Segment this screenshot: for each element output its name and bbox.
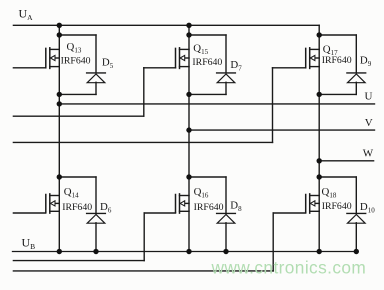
wire D8 branch lower <box>225 223 227 252</box>
transistor Q14 <box>46 194 60 213</box>
wire D9 cathode link <box>319 34 356 36</box>
diode D5 <box>87 73 106 83</box>
wire D10 branch lower <box>355 223 357 252</box>
diode D8 <box>217 213 236 223</box>
transistor Q15 <box>176 48 190 69</box>
diode D10 <box>347 213 366 223</box>
wire column 2 rail (Q15 drain-source to Q16) <box>188 25 190 251</box>
junction node W tap <box>317 158 322 163</box>
wire Q15 gate lead <box>13 68 175 116</box>
wire D5 cathode link <box>59 34 96 36</box>
junction Q16 source on bus <box>186 249 191 254</box>
junction Q13 drain on bus <box>57 23 62 28</box>
svg-text:U: U <box>365 91 373 103</box>
wire D7 branch upper <box>225 35 227 73</box>
junction Q18 drain / D10 <box>317 174 322 179</box>
diode D7 <box>217 73 236 83</box>
svg-text:IRF640: IRF640 <box>322 55 352 66</box>
svg-text:W: W <box>363 148 374 160</box>
wire D5 anode link <box>59 93 96 95</box>
wire D9 branch upper <box>355 35 357 73</box>
wire U_B negative bus <box>13 251 357 253</box>
wire phase W <box>319 160 373 162</box>
svg-text:Q15: Q15 <box>193 42 208 55</box>
wire column 1 rail (Q13 drain-source to Q14) <box>58 25 60 251</box>
svg-text:IRF640: IRF640 <box>194 202 224 213</box>
junction Q17 drain / D9 <box>317 32 322 37</box>
wire Q16 gate lead <box>13 213 175 261</box>
wire D5 branch lower <box>95 82 97 94</box>
junction node V tap <box>186 127 191 132</box>
wire D9 anode link <box>319 93 356 95</box>
junction Q15 drain / D7 <box>186 32 191 37</box>
svg-text:IRF640: IRF640 <box>62 202 92 213</box>
wire phase V <box>189 129 375 131</box>
wire D7 branch lower <box>225 82 227 94</box>
wire Q17 gate lead <box>13 68 305 143</box>
svg-text:Q18: Q18 <box>322 186 337 199</box>
wire D5 branch upper <box>95 35 97 73</box>
junction Q14 source on bus <box>57 249 62 254</box>
junction Q18 source on bus <box>317 249 322 254</box>
wire D7 cathode link <box>189 34 226 36</box>
svg-text:UA: UA <box>19 7 34 22</box>
junction Q16 drain / D8 <box>186 174 191 179</box>
wire D8 branch upper <box>225 177 227 213</box>
svg-text:Q14: Q14 <box>64 186 79 199</box>
wire D6 cathode link <box>59 176 96 178</box>
wire U_A positive bus <box>13 24 319 26</box>
svg-text:D8: D8 <box>230 200 242 213</box>
transistor Q18 <box>306 194 320 213</box>
wire D6 branch upper <box>95 177 97 213</box>
junction Q13 drain / D5 <box>57 32 62 37</box>
wire D8 cathode link <box>189 176 226 178</box>
svg-text:D5: D5 <box>102 57 114 70</box>
svg-text:Q16: Q16 <box>194 186 209 199</box>
junction node U tap <box>57 101 62 106</box>
junction Q17 source / D9 <box>317 92 322 97</box>
junction D10 anode on bus <box>354 249 359 254</box>
junction Q15 drain on bus <box>186 23 191 28</box>
junction Q15 source / D7 <box>186 92 191 97</box>
svg-text:D9: D9 <box>360 55 372 68</box>
wire D7 anode link <box>189 93 226 95</box>
junction Q14 drain / D6 <box>57 174 62 179</box>
transistor Q13 <box>46 48 60 69</box>
wire D10 cathode link <box>319 176 356 178</box>
wire Q18 gate lead <box>13 213 305 271</box>
wire Q14 gate lead <box>13 212 45 214</box>
junction D6 anode on bus <box>93 249 98 254</box>
svg-text:D10: D10 <box>360 201 375 214</box>
svg-text:Q13: Q13 <box>67 41 82 54</box>
transistor Q16 <box>176 194 190 213</box>
svg-text:IRF640: IRF640 <box>61 55 91 66</box>
svg-text:V: V <box>365 117 373 129</box>
svg-text:IRF640: IRF640 <box>322 201 352 212</box>
svg-text:UB: UB <box>22 236 36 251</box>
svg-text:www.cntronics.com: www.cntronics.com <box>211 257 367 277</box>
wire D10 branch upper <box>355 177 357 213</box>
transistor Q17 <box>306 48 320 69</box>
wire phase U <box>59 103 374 105</box>
wire column 3 rail (Q17 drain-source to Q18) <box>318 25 320 251</box>
wire D9 branch lower <box>355 82 357 94</box>
svg-text:IRF640: IRF640 <box>192 57 222 68</box>
wire Q13 gate lead <box>13 67 45 69</box>
junction Q13 source / D5 <box>57 92 62 97</box>
svg-text:D7: D7 <box>230 59 242 72</box>
junction D8 anode on bus <box>223 249 228 254</box>
diode D9 <box>347 73 366 83</box>
diode D6 <box>87 213 106 223</box>
svg-text:D6: D6 <box>100 201 112 214</box>
wire D6 branch lower <box>95 223 97 252</box>
